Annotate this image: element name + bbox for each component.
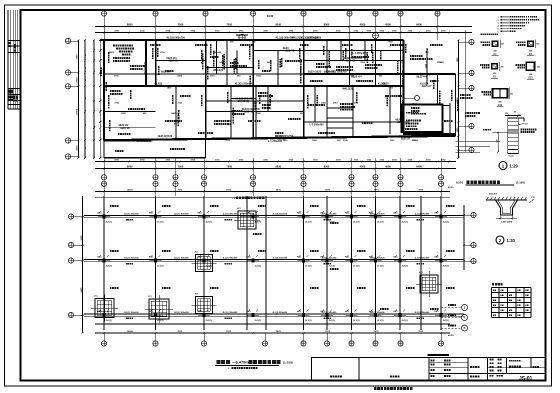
svg-text:2&20: 2&20 (270, 139, 276, 141)
svg-text:49.60: 49.60 (448, 334, 454, 337)
svg-text:7500: 7500 (178, 22, 184, 26)
svg-text:WKL2(3): WKL2(3) (342, 88, 352, 91)
svg-text:JL1(1) 300x600: JL1(1) 300x600 (370, 312, 386, 314)
svg-text:4500: 4500 (385, 22, 391, 26)
top plan annotation blobs (113, 57, 115, 59)
svg-text:+-0.000: +-0.000 (232, 198, 240, 200)
svg-text:JL1(1): JL1(1) (329, 320, 336, 322)
svg-text:7800: 7800 (77, 54, 79, 60)
svg-text:JL1(1): JL1(1) (402, 265, 409, 267)
footing JC4 (196, 255, 213, 272)
svg-text:60: 60 (514, 112, 516, 114)
svg-text:150: 150 (505, 113, 508, 115)
svg-text:4&20: 4&20 (283, 47, 290, 50)
svg-text:35.60: 35.60 (412, 104, 418, 106)
section marker circle 2 (373, 33, 379, 39)
column detail C3 (527, 40, 534, 47)
top plan axis leader lines (103, 16, 105, 40)
column detail G13 (526, 62, 534, 70)
detail scale bubble 2 1:20 (496, 236, 504, 244)
stair section detail (508, 118, 518, 154)
svg-text:350: 350 (537, 66, 540, 68)
svg-text:2&25 8@100: 2&25 8@100 (307, 37, 322, 40)
section marker circle 1 (239, 34, 245, 40)
svg-text:4500: 4500 (385, 164, 391, 168)
svg-text:JL1(1) 300x600: JL1(1) 300x600 (174, 312, 190, 314)
svg-text:JL1(1): JL1(1) (377, 320, 384, 322)
svg-text:1500: 1500 (425, 64, 427, 68)
svg-text:(1:100): (1:100) (516, 181, 525, 185)
svg-text:JL1(1): JL1(1) (206, 221, 213, 223)
svg-text:8000: 8000 (127, 22, 133, 26)
svg-text:JL1(1) 300x600: JL1(1) 300x600 (124, 258, 140, 260)
svg-text:7500: 7500 (178, 164, 184, 168)
detail leader lines (456, 141, 501, 143)
svg-text:8000: 8000 (127, 164, 133, 168)
footing JC5 (238, 211, 256, 229)
svg-text:7875: 7875 (226, 331, 232, 333)
svg-text:9.570: 9.570 (456, 180, 463, 184)
svg-text:~-6.470m: ~-6.470m (232, 360, 249, 365)
svg-text:7875: 7875 (418, 189, 424, 191)
svg-text:KL3(2) 250x500: KL3(2) 250x500 (235, 98, 254, 101)
svg-text:JL1(1): JL1(1) (157, 221, 164, 223)
svg-text:JL1(1) 300x600: JL1(1) 300x600 (272, 214, 288, 216)
svg-text:JL1(1) 300x600: JL1(1) 300x600 (223, 258, 239, 260)
column detail C1 (492, 40, 499, 47)
svg-text:JL1(1) 300x600: JL1(1) 300x600 (415, 258, 431, 260)
footing JC1 (95, 299, 114, 318)
svg-text:8&25 4/4: 8&25 4/4 (324, 71, 335, 74)
svg-text:7875: 7875 (374, 189, 380, 191)
top plan top dimension lines (95, 26, 472, 28)
svg-text:6400: 6400 (416, 164, 422, 168)
svg-text:6&22 4/2: 6&22 4/2 (168, 60, 178, 63)
svg-text:4&20: 4&20 (395, 119, 402, 122)
bottom plan scattered labels (110, 205, 112, 207)
svg-text:&8@100(2): &8@100(2) (418, 74, 430, 76)
top plan top axis bubbles (101, 11, 106, 16)
top plan left axis bubbles (65, 38, 70, 43)
svg-text:JL1(1) 300x600: JL1(1) 300x600 (415, 312, 431, 314)
bottom plan left axis bubbles (68, 214, 73, 219)
svg-text:9000: 9000 (275, 22, 281, 26)
svg-text:JL1(1) 300x600: JL1(1) 300x600 (272, 258, 288, 260)
svg-text:WKL2(3): WKL2(3) (292, 37, 302, 40)
footing JC2 (149, 299, 169, 319)
svg-text:JL1(1): JL1(1) (106, 320, 113, 322)
top plan beam labels vertical (105, 82, 107, 84)
svg-text:JL1(1) 300x600: JL1(1) 300x600 (174, 214, 190, 216)
svg-text:(1:100): (1:100) (283, 360, 293, 364)
top plan right axis bubbles (469, 39, 474, 44)
svg-text:L-7 200x400: L-7 200x400 (352, 52, 367, 55)
trench section detail (486, 199, 527, 201)
bottom plan bottom dimension line (95, 332, 450, 334)
svg-text:JL1(1): JL1(1) (402, 221, 409, 223)
svg-text:KL6(2) 300x600: KL6(2) 300x600 (399, 135, 418, 138)
svg-text:8&25 2/7: 8&25 2/7 (401, 139, 411, 141)
svg-text:6&22 4/2: 6&22 4/2 (310, 73, 320, 76)
svg-text:8000: 8000 (324, 22, 330, 26)
svg-text:4200: 4200 (76, 145, 79, 151)
svg-text:6&22 4/2: 6&22 4/2 (285, 50, 295, 53)
bottom plan horizontal axis lines (84, 214, 464, 216)
bottom plan left dimension chain (82, 196, 84, 333)
svg-text:&8@100(2): &8@100(2) (237, 101, 249, 103)
bottom plan column marks (102, 214, 105, 218)
svg-text:JL1(1): JL1(1) (305, 320, 312, 322)
svg-text:JL1(1) 300x600: JL1(1) 300x600 (322, 258, 338, 260)
svg-text:7875: 7875 (325, 189, 331, 191)
column detail G1 (491, 63, 498, 70)
svg-text:6&22 4/2: 6&22 4/2 (244, 111, 254, 114)
column schedule table (492, 283, 494, 285)
svg-text:L-7 200x400: L-7 200x400 (309, 124, 324, 127)
svg-text:JL1(1): JL1(1) (443, 320, 450, 322)
bottom plan second top dim line (95, 197, 450, 199)
svg-text:C8: C8 (525, 124, 527, 126)
svg-text:JL1(1) 300x600: JL1(1) 300x600 (370, 214, 386, 216)
svg-text:JL1(1) 300x600: JL1(1) 300x600 (322, 312, 338, 314)
svg-text:2&20: 2&20 (278, 40, 284, 42)
svg-text:6&22 4/2: 6&22 4/2 (156, 85, 166, 88)
svg-text:6400: 6400 (416, 22, 422, 26)
bottom plan bottom axis bubbles (101, 341, 106, 346)
title block (312, 358, 546, 381)
bottom plan top dimension line (95, 191, 450, 193)
top plan bottom dimension lines (95, 161, 456, 163)
top plan right appendage room (402, 105, 443, 133)
svg-text:JL1(1) 300x600: JL1(1) 300x600 (124, 214, 140, 216)
svg-text:KL5(3): KL5(3) (276, 135, 284, 138)
svg-text:3000: 3000 (77, 77, 79, 83)
svg-text:2&25 8@100: 2&25 8@100 (158, 135, 173, 138)
svg-text:KL1(9) 300x700: KL1(9) 300x700 (167, 37, 186, 40)
svg-text:JL1(1): JL1(1) (255, 221, 262, 223)
svg-text:&8@200: &8@200 (489, 194, 498, 196)
svg-text:7875: 7875 (276, 331, 282, 333)
svg-text:JL1(1): JL1(1) (443, 265, 450, 267)
svg-text:7875: 7875 (418, 331, 424, 333)
svg-text:4500: 4500 (360, 164, 366, 168)
svg-text:JL1(1): JL1(1) (353, 320, 360, 322)
svg-text:2&22+2&20: 2&22+2&20 (308, 71, 322, 74)
svg-text:JL1(1): JL1(1) (305, 265, 312, 267)
svg-text:JL1(1): JL1(1) (329, 221, 336, 223)
svg-text:7875: 7875 (276, 189, 282, 191)
svg-text:JL1(1): JL1(1) (106, 221, 113, 223)
svg-text:JL1(1) 300x600: JL1(1) 300x600 (174, 258, 190, 260)
svg-text:1:20: 1:20 (507, 238, 516, 243)
svg-text:KL5(3): KL5(3) (378, 83, 386, 86)
bottom plan caption (217, 360, 221, 364)
svg-text:JL1(1) 300x600: JL1(1) 300x600 (223, 312, 239, 314)
svg-text:JL1(1) 300x600: JL1(1) 300x600 (415, 214, 431, 216)
svg-text:4500: 4500 (360, 22, 366, 26)
svg-text:JL1(1) 300x600: JL1(1) 300x600 (370, 258, 386, 260)
svg-text:2&20: 2&20 (344, 86, 350, 88)
svg-text:JL1(1): JL1(1) (255, 265, 262, 267)
svg-text:350: 350 (536, 44, 539, 46)
svg-text:1:20: 1:20 (510, 164, 519, 169)
svg-text:JL1(1) 300x600: JL1(1) 300x600 (223, 214, 239, 216)
svg-text:KL5(3): KL5(3) (154, 83, 162, 86)
svg-text:KL5(3): KL5(3) (420, 83, 428, 86)
svg-text:7500: 7500 (226, 164, 232, 168)
column detail C12 (493, 89, 508, 98)
detail scale bubble 1:20 (499, 162, 507, 170)
svg-text:JL1(1): JL1(1) (353, 221, 360, 223)
svg-text:JL1(1): JL1(1) (329, 265, 336, 267)
svg-text:KL1(9) 300x700: KL1(9) 300x700 (242, 108, 261, 111)
svg-text:240: 240 (495, 139, 498, 142)
svg-text:16000: 16000 (127, 331, 134, 333)
svg-text:JL1(1): JL1(1) (305, 221, 312, 223)
svg-text:7875: 7875 (325, 331, 331, 333)
svg-text:350: 350 (501, 44, 504, 46)
svg-text:1-300 (350): 1-300 (350) (501, 222, 513, 224)
svg-text:JL1(1): JL1(1) (377, 221, 384, 223)
svg-text:6&22 4/2: 6&22 4/2 (120, 127, 130, 130)
svg-text:JL1(1) 300x600: JL1(1) 300x600 (272, 312, 288, 314)
svg-text:JL1(1): JL1(1) (206, 320, 213, 322)
svg-text:49.60: 49.60 (448, 186, 454, 189)
top plan left dimension chain (78, 40, 80, 158)
svg-text:8&25 4/4: 8&25 4/4 (416, 76, 427, 79)
top plan perimeter and main beams (100, 39, 404, 41)
svg-text:9000: 9000 (275, 164, 281, 168)
svg-text:7875: 7875 (177, 331, 183, 333)
svg-text:39.60: 39.60 (267, 14, 274, 18)
svg-text:2&20: 2&20 (330, 74, 336, 76)
svg-text:6&25 2/4: 6&25 2/4 (166, 57, 177, 60)
general notes text block (481, 33, 482, 35)
svg-text:JL1(1): JL1(1) (157, 320, 164, 322)
svg-text:8&25 2/7: 8&25 2/7 (294, 40, 304, 42)
svg-text:12000: 12000 (77, 108, 79, 115)
svg-text:7875: 7875 (177, 189, 183, 191)
svg-text:JL1(1): JL1(1) (402, 320, 409, 322)
svg-text:2&20: 2&20 (309, 40, 315, 42)
svg-text:JL1(1) 300x600: JL1(1) 300x600 (322, 214, 338, 216)
left signature strip table (7, 10, 9, 109)
svg-text:6&22 4/2: 6&22 4/2 (346, 60, 356, 63)
between-plans axis bubble pairs (101, 175, 106, 180)
footing JC6 (420, 275, 438, 293)
svg-text:8&25 2/7: 8&25 2/7 (422, 86, 432, 88)
svg-text:JL1(1): JL1(1) (377, 265, 384, 267)
bottom plan right edge dim line (463, 205, 465, 270)
top plan right dimension chain (458, 40, 460, 158)
footing JC3 (196, 297, 213, 314)
svg-text:WKL2(3): WKL2(3) (213, 69, 223, 72)
caption below border (374, 387, 377, 390)
svg-text:350: 350 (510, 93, 513, 95)
bottom plan vertical grid lines (103, 196, 105, 330)
svg-text:8000: 8000 (324, 164, 330, 168)
svg-text:7500: 7500 (226, 22, 232, 26)
svg-text:3&22 2/2: 3&22 2/2 (118, 124, 129, 127)
svg-text:JL1(1): JL1(1) (255, 320, 262, 322)
svg-text:350: 350 (501, 66, 504, 68)
svg-text:H=25: H=25 (509, 156, 515, 158)
svg-text:JL1(1): JL1(1) (353, 265, 360, 267)
svg-text:JL1(1): JL1(1) (157, 265, 164, 267)
standard detail references (441, 307, 461, 309)
bottom plan right axis bubbles (471, 212, 476, 217)
top plan interior beams (155, 40, 157, 86)
svg-text:7875: 7875 (226, 189, 232, 191)
svg-text:JS-01: JS-01 (519, 376, 533, 382)
section marker circle 3 (415, 96, 420, 101)
svg-text:JL1(1): JL1(1) (106, 265, 113, 267)
svg-text:16000: 16000 (127, 189, 134, 191)
svg-text:JL1(1) 300x600: JL1(1) 300x600 (124, 312, 140, 314)
svg-text:7875: 7875 (374, 331, 380, 333)
svg-text:JL1(1): JL1(1) (443, 221, 450, 223)
